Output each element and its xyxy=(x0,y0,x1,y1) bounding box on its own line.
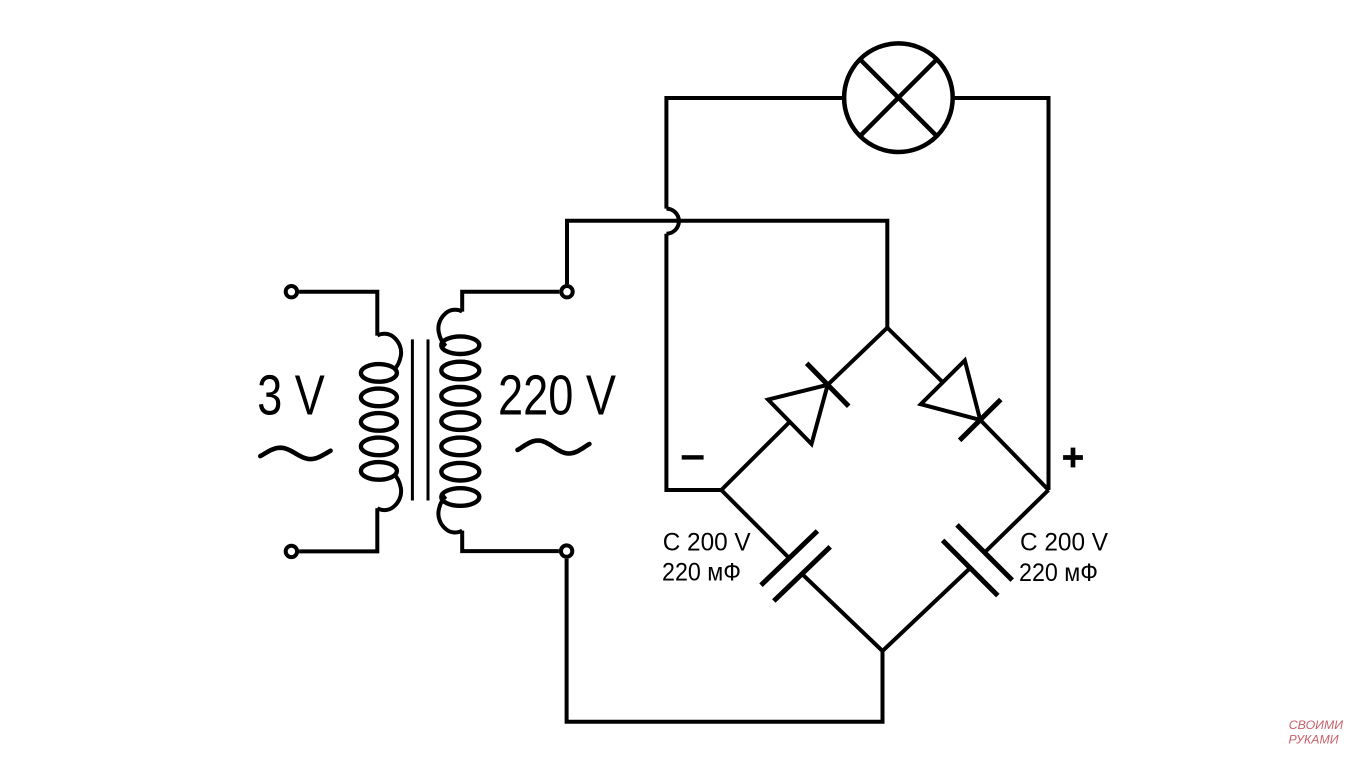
transformer T1 secondary terminal top xyxy=(561,286,572,297)
wire primary bottom lead xyxy=(299,508,377,551)
transformer T1 primary terminal top xyxy=(286,286,297,297)
svg-text:C 200 V: C 200 V xyxy=(1020,529,1108,557)
capacitor C2 plates xyxy=(943,525,1013,596)
svg-text:220 V: 220 V xyxy=(498,364,616,428)
wire bridge bottom to secondary bottom terminal xyxy=(567,559,883,722)
diode VD1 xyxy=(768,385,828,444)
wire lamp right down to bridge plus xyxy=(953,98,1049,490)
diode VD2 cathode bar xyxy=(960,400,1001,441)
svg-text:СВОИМИ: СВОИМИ xyxy=(1289,718,1343,732)
wire bridge edge left vertex to diode VD1 xyxy=(721,422,790,490)
transformer T1 primary winding hook top xyxy=(377,334,401,370)
svg-text:220 мФ: 220 мФ xyxy=(1019,559,1098,587)
transformer T1 secondary winding loops xyxy=(441,336,479,505)
wire lamp left branch down to bridge minus xyxy=(666,234,721,490)
node plus label xyxy=(1063,448,1083,468)
wire capacitor C2 to right vertex xyxy=(985,490,1049,553)
capacitor C1 plates xyxy=(761,531,830,601)
wire hop over junction xyxy=(666,209,679,234)
transformer T1 primary winding hook bottom xyxy=(377,474,401,510)
wire top vertex to diode VD2 xyxy=(887,328,943,383)
wire primary top lead xyxy=(299,292,377,336)
svg-text:3 V: 3 V xyxy=(257,364,325,428)
AC tilde symbol primary xyxy=(260,448,330,459)
wire hop top to lamp left xyxy=(666,98,844,209)
transformer T1 secondary winding hook top xyxy=(438,310,462,346)
svg-text:C 200 V: C 200 V xyxy=(663,529,751,557)
transformer T1 secondary terminal bottom xyxy=(561,545,572,556)
wire diode VD2 to right vertex xyxy=(980,420,1048,490)
node minus label xyxy=(682,455,704,459)
svg-text:220 мФ: 220 мФ xyxy=(662,558,741,586)
transformer T1 secondary winding hook bottom xyxy=(438,496,462,532)
AC tilde symbol secondary xyxy=(518,441,590,454)
svg-text:РУКАМИ: РУКАМИ xyxy=(1289,733,1339,747)
wire left vertex to capacitor C1 xyxy=(721,490,789,558)
transformer T1 primary winding loops xyxy=(361,364,397,480)
wire diode VD1 to top vertex xyxy=(828,328,888,385)
transformer T1 primary terminal bottom xyxy=(286,546,297,557)
wire bottom vertex to capacitor C2 xyxy=(883,568,971,651)
lamp HL1 xyxy=(844,43,953,152)
wire secondary bottom lead xyxy=(462,531,559,552)
diode VD1 cathode bar xyxy=(807,363,849,406)
diode VD2 xyxy=(921,360,980,420)
transformer T1 core xyxy=(412,339,428,500)
wire secondary top lead xyxy=(462,292,559,312)
wire secondary top to node A xyxy=(567,221,887,328)
wire capacitor C1 to bottom vertex xyxy=(802,574,883,651)
